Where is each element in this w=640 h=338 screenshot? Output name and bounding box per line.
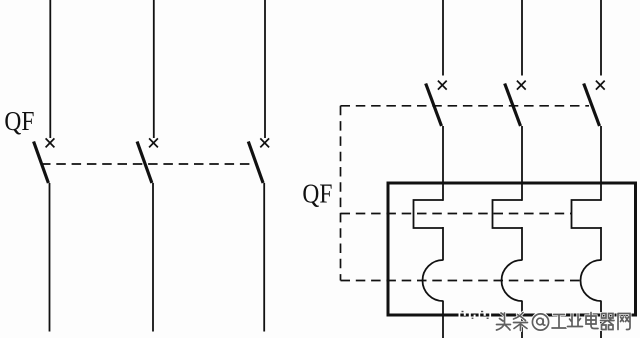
pole 3 upper wire bbox=[264, 0, 266, 138]
pole 5 wire blade-to-box bbox=[521, 126, 523, 201]
pole 6 fixed contact x bbox=[596, 81, 605, 90]
pole 4 lower wire bbox=[442, 301, 444, 338]
pole 5 wire between releases bbox=[521, 227, 523, 261]
pole 5 breaker blade bbox=[505, 84, 521, 127]
pole 4 fixed contact x bbox=[438, 81, 447, 90]
pole 3 fixed contact x bbox=[260, 138, 269, 147]
svg-text:QF: QF bbox=[4, 106, 34, 136]
pole 2 lower wire bbox=[152, 183, 154, 332]
pole 1 fixed contact x bbox=[46, 138, 55, 147]
watermark char 器 bbox=[601, 314, 615, 330]
pole 6 thermal release (rectangular detour) bbox=[572, 200, 602, 228]
pole 2 upper wire bbox=[153, 0, 155, 138]
pole 4 breaker blade bbox=[426, 84, 442, 127]
release unit enclosure box bbox=[388, 183, 636, 315]
pole 3 breaker blade bbox=[248, 142, 263, 184]
watermark logo outline remnants bbox=[462, 311, 489, 319]
linkage dashed top horizontal through blades bbox=[341, 105, 590, 107]
watermark char 头 bbox=[497, 313, 511, 330]
pole 6 lower wire bbox=[600, 301, 602, 338]
pole 4 wire between releases bbox=[442, 227, 444, 261]
pole 2 fixed contact x bbox=[149, 138, 158, 147]
watermark char @ bbox=[532, 313, 549, 330]
pole 5 fixed contact x bbox=[517, 81, 526, 90]
pole 5 electromagnetic release (semicircular detour) bbox=[501, 260, 522, 301]
pole 3 lower wire bbox=[263, 183, 265, 332]
pole 6 electromagnetic release (semicircular detour) bbox=[581, 260, 602, 301]
pole 1 lower wire bbox=[49, 183, 51, 332]
pole 5 upper wire bbox=[521, 0, 523, 76]
watermark 头条@工业电器网 bbox=[459, 311, 631, 331]
pole 4 upper wire bbox=[442, 0, 444, 76]
mechanical linkage dashed line (left diagram) bbox=[41, 163, 256, 165]
pole 5 thermal release (rectangular detour) bbox=[493, 200, 523, 228]
pole 1 breaker blade bbox=[34, 142, 49, 184]
svg-text:QF: QF bbox=[302, 179, 332, 209]
watermark char 网 bbox=[618, 314, 630, 330]
pole 4 electromagnetic release (semicircular detour) bbox=[422, 260, 443, 301]
pole 6 upper wire bbox=[600, 0, 602, 76]
linkage dashed bottom horizontal through electromagnetic releases bbox=[341, 280, 582, 282]
pole 5 lower wire bbox=[521, 301, 523, 338]
pole 4 thermal release (rectangular detour) bbox=[414, 200, 444, 228]
pole 2 breaker blade bbox=[137, 142, 152, 184]
watermark char 电 bbox=[586, 313, 598, 329]
pole 4 wire blade-to-box bbox=[442, 126, 444, 201]
watermark logo (white nicks over box line) bbox=[459, 312, 492, 319]
pole 6 breaker blade bbox=[584, 84, 600, 127]
linkage dashed vertical (right diagram) bbox=[340, 106, 342, 281]
watermark char 业 bbox=[568, 314, 583, 327]
pole 6 wire blade-to-box bbox=[600, 126, 602, 201]
watermark char 工 bbox=[552, 315, 566, 329]
pole 6 wire between releases bbox=[600, 227, 602, 261]
watermark char 条 bbox=[514, 313, 528, 331]
linkage dashed middle horizontal through thermal releases bbox=[341, 213, 572, 215]
pole 1 upper wire bbox=[49, 0, 51, 138]
